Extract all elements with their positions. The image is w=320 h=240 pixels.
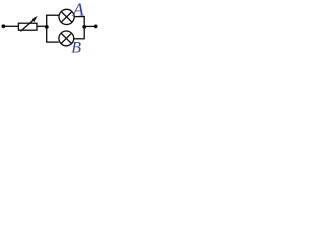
- wire top-left to lamp A: [46, 14, 59, 16]
- rheostat R body: [18, 23, 37, 30]
- rheostat arrow: [20, 19, 34, 31]
- rheostat arrowhead: [32, 16, 38, 22]
- wire left terminal to rheostat: [3, 25, 18, 27]
- wire left vertical branch: [46, 15, 48, 42]
- svg-text:B: B: [71, 40, 81, 53]
- lamp A: [59, 9, 74, 24]
- terminal dot left: [2, 24, 6, 28]
- wire bottom-left to lamp B: [46, 41, 59, 43]
- wire junction to right terminal: [84, 25, 95, 27]
- junction dot right: [82, 25, 86, 29]
- junction dot left: [45, 25, 49, 29]
- wire lamp A to right vertical: [74, 16, 85, 18]
- wire right vertical: [83, 17, 85, 39]
- svg-text:A: A: [72, 0, 85, 20]
- wire rheostat to left junction: [37, 25, 47, 27]
- wire lamp B to right vertical: [74, 38, 85, 40]
- lamp B: [59, 31, 74, 46]
- terminal dot right: [94, 25, 98, 29]
